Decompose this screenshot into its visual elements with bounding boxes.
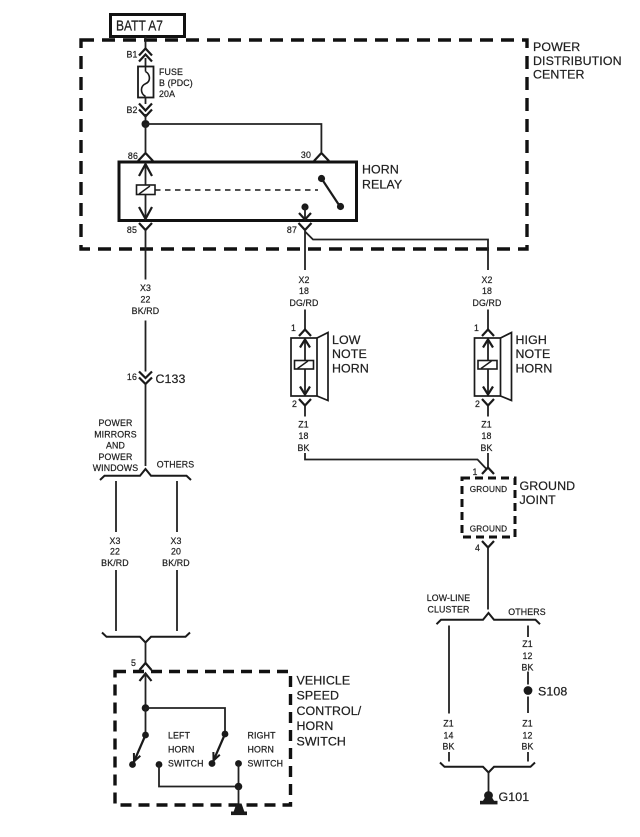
svg-text:B (PDC): B (PDC) (159, 78, 193, 88)
svg-text:NOTE: NOTE (332, 347, 367, 361)
svg-text:1: 1 (472, 467, 477, 477)
svg-text:2: 2 (475, 399, 480, 409)
label X2 18 DG/RD left (289, 275, 318, 308)
svg-text:LOW-LINE: LOW-LINE (427, 593, 471, 603)
label HIGH NOTE HORN (516, 333, 553, 376)
left switch fixed contact (156, 761, 239, 786)
svg-text:20: 20 (171, 547, 181, 557)
svg-text:14: 14 (443, 731, 453, 741)
svg-text:BK/RD: BK/RD (101, 558, 129, 568)
label X3 22 BK/RD branch left (101, 536, 129, 568)
label X2 18 DG/RD right (472, 275, 501, 308)
chassis ground under switch box (231, 804, 247, 816)
svg-text:4: 4 (475, 543, 480, 553)
svg-text:S108: S108 (538, 685, 567, 699)
svg-text:BK/RD: BK/RD (132, 306, 160, 316)
svg-text:BK: BK (521, 742, 533, 752)
label RIGHT HORN SWITCH (248, 731, 284, 769)
label Z1 18 BK low horn (297, 420, 309, 454)
terminal B1 (126, 49, 152, 67)
label POWER DISTRIBUTION CENTER (533, 40, 622, 82)
svg-text:12: 12 (522, 731, 532, 741)
low note horn (291, 333, 328, 401)
svg-text:HORN: HORN (297, 719, 334, 733)
svg-text:VEHICLE: VEHICLE (297, 674, 351, 688)
label VEHICLE SPEED CONTROL/ HORN SWITCH (297, 674, 362, 749)
svg-text:BK: BK (442, 742, 454, 752)
low note horn pin 2 (292, 399, 311, 417)
svg-text:22: 22 (140, 295, 150, 305)
wire left branch upper (115, 481, 117, 532)
wire junction to relay terminal 86 (145, 124, 147, 152)
left horn switch (129, 732, 149, 768)
svg-text:BK: BK (521, 663, 533, 673)
svg-text:HORN: HORN (332, 362, 369, 376)
svg-text:DISTRIBUTION: DISTRIBUTION (533, 54, 622, 68)
label LOW-LINE CLUSTER (427, 593, 471, 615)
low note horn pin 1 (291, 323, 311, 336)
terminal B2 (126, 104, 152, 121)
wire to high note horn pin 1 (487, 310, 489, 330)
node switch output junction (235, 783, 243, 791)
ground joint pin 4 (475, 541, 494, 610)
wire right branch lower (176, 570, 178, 631)
wire entry into switch box (140, 674, 152, 709)
svg-text:G101: G101 (499, 790, 530, 804)
wire junction to relay terminal 30 (146, 124, 322, 152)
wire fuse to terminal B2 (145, 98, 147, 105)
terminal 85 (127, 223, 152, 280)
svg-text:16: 16 (127, 372, 137, 382)
wire left branch lower (115, 570, 117, 631)
connector C133 pin 16 (127, 372, 186, 387)
svg-text:2: 2 (292, 399, 297, 409)
label Z1 14 BK cluster (442, 719, 454, 752)
label X3 22 BK/RD left (132, 283, 160, 316)
svg-text:JOINT: JOINT (520, 493, 557, 507)
label Z1 18 BK high horn (480, 420, 492, 454)
relay coil (137, 185, 156, 195)
label X3 20 BK/RD branch right (162, 536, 190, 568)
svg-text:87: 87 (287, 225, 297, 235)
svg-text:30: 30 (301, 150, 311, 160)
svg-text:MIRRORS: MIRRORS (94, 429, 137, 439)
svg-text:POWER: POWER (99, 418, 133, 428)
svg-text:RIGHT: RIGHT (248, 731, 277, 741)
svg-text:Z1: Z1 (443, 719, 454, 729)
high note horn pin 1 (474, 323, 494, 336)
wire low horn to ground joint (305, 453, 486, 469)
svg-text:12: 12 (522, 651, 532, 661)
svg-text:22: 22 (110, 547, 120, 557)
ground joint pin 1 (472, 467, 494, 477)
svg-text:AND: AND (106, 441, 125, 451)
wire junction to chassis ground (238, 787, 240, 806)
svg-text:Z1: Z1 (522, 639, 533, 649)
svg-text:CLUSTER: CLUSTER (427, 605, 469, 615)
terminal 5 (131, 658, 152, 670)
ground joint dashed box (462, 478, 515, 537)
wire C133 to split (145, 385, 147, 467)
svg-text:SWITCH: SWITCH (168, 759, 204, 769)
svg-text:HORN: HORN (168, 745, 195, 755)
svg-text:RELAY: RELAY (362, 178, 402, 192)
svg-text:POWER: POWER (533, 40, 580, 54)
svg-text:POWER: POWER (99, 452, 133, 462)
svg-text:HORN: HORN (516, 362, 553, 376)
svg-text:85: 85 (127, 225, 137, 235)
label HORN RELAY (362, 163, 402, 192)
wire others to S108 (527, 672, 529, 685)
svg-text:18: 18 (299, 286, 309, 296)
vehicle speed control horn switch dashed box (115, 672, 291, 806)
svg-text:DG/RD: DG/RD (289, 298, 318, 308)
terminal 30 (301, 150, 329, 161)
wire cluster branch lower (448, 752, 450, 762)
svg-text:WINDOWS: WINDOWS (93, 463, 139, 473)
right switch fixed contact (235, 760, 242, 786)
wire others branch lower (527, 752, 529, 762)
wire others branch upper (527, 626, 529, 638)
svg-text:1: 1 (291, 323, 296, 333)
power distribution center dashed box (81, 40, 527, 249)
wire to low note horn pin 1 (304, 310, 306, 330)
svg-text:20A: 20A (159, 89, 175, 99)
svg-text:C133: C133 (156, 372, 186, 386)
wire merge to G101 (488, 773, 490, 793)
svg-text:OTHERS: OTHERS (157, 460, 195, 470)
wire merge to switch box (145, 643, 147, 664)
svg-text:FUSE: FUSE (159, 67, 183, 77)
terminal 87 (287, 223, 312, 270)
splice merge brace left (102, 633, 190, 643)
svg-text:BATT A7: BATT A7 (116, 19, 163, 35)
svg-text:LOW: LOW (332, 333, 361, 347)
svg-text:Z1: Z1 (481, 420, 492, 430)
svg-text:Z1: Z1 (298, 420, 309, 430)
fuse B (PDC) 20A (138, 67, 193, 100)
svg-text:HORN: HORN (248, 745, 275, 755)
wire junction to right switch (146, 708, 226, 734)
svg-text:SWITCH: SWITCH (248, 759, 284, 769)
label LEFT HORN SWITCH (168, 731, 204, 769)
svg-text:B2: B2 (126, 105, 137, 115)
svg-text:OTHERS: OTHERS (508, 607, 546, 617)
svg-text:X2: X2 (298, 275, 309, 285)
label GROUND JOINT (520, 479, 576, 507)
svg-text:18: 18 (481, 431, 491, 441)
wire 85 labels to C133 (145, 321, 147, 372)
svg-text:HIGH: HIGH (516, 333, 547, 347)
label Z1 12 BK others upper (521, 639, 533, 673)
splice merge brace right (440, 763, 535, 773)
splice S108 (524, 685, 568, 699)
wire cluster branch upper (448, 626, 450, 714)
wire 87 branch to high note horn (305, 232, 488, 271)
relay switch (318, 175, 344, 210)
svg-text:BK: BK (297, 443, 309, 453)
svg-text:GROUND: GROUND (470, 525, 508, 534)
wire high horn to ground joint (487, 453, 489, 467)
svg-text:CENTER: CENTER (533, 68, 585, 82)
svg-text:LEFT: LEFT (168, 731, 191, 741)
svg-text:1: 1 (474, 323, 479, 333)
svg-text:SPEED: SPEED (297, 689, 340, 703)
label POWER MIRRORS AND POWER WINDOWS (93, 418, 139, 473)
ground G101 (480, 790, 529, 804)
svg-text:X3: X3 (170, 536, 181, 546)
svg-text:B1: B1 (126, 50, 137, 60)
high note horn (475, 333, 512, 401)
node junction below B2 (142, 120, 150, 128)
terminal 86 (128, 151, 153, 161)
relay switch fixed contact to 87 (299, 203, 311, 219)
splice split brace left (100, 469, 191, 480)
svg-text:BK/RD: BK/RD (162, 558, 190, 568)
wire right branch upper (176, 481, 178, 532)
svg-text:NOTE: NOTE (516, 347, 551, 361)
horn relay box (119, 162, 357, 221)
relay coil to switch dashed link (155, 189, 318, 191)
svg-text:Z1: Z1 (522, 719, 533, 729)
svg-text:CONTROL/: CONTROL/ (297, 704, 362, 718)
svg-text:X3: X3 (140, 283, 151, 293)
node switch feed junction (142, 704, 150, 712)
svg-text:SWITCH: SWITCH (297, 734, 346, 748)
svg-text:GROUND: GROUND (470, 485, 508, 494)
relay coil branch wire with arrows (139, 162, 152, 220)
svg-text:GROUND: GROUND (520, 479, 576, 493)
label Z1 12 BK others lower (521, 719, 533, 752)
wire BATT A7 to terminal B1 (145, 37, 147, 50)
svg-text:5: 5 (131, 658, 136, 668)
right horn switch (209, 731, 229, 767)
svg-text:HORN: HORN (362, 163, 399, 177)
connector BATT A7 (111, 15, 185, 37)
svg-text:DG/RD: DG/RD (472, 298, 501, 308)
label LOW NOTE HORN (332, 333, 369, 376)
svg-text:X3: X3 (109, 536, 120, 546)
svg-text:BK: BK (480, 443, 492, 453)
wire S108 down (527, 697, 529, 714)
high note horn pin 2 (475, 399, 494, 417)
svg-text:18: 18 (482, 286, 492, 296)
wire junction to left switch (145, 708, 147, 735)
svg-text:X2: X2 (481, 275, 492, 285)
splice split brace right (437, 613, 541, 624)
svg-text:18: 18 (298, 431, 308, 441)
svg-text:86: 86 (128, 151, 138, 161)
